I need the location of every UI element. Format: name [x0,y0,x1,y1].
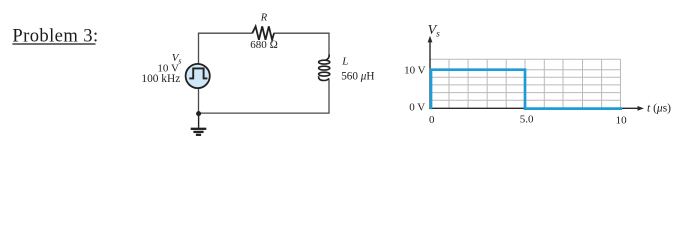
svg-text:100 kHz: 100 kHz [141,73,180,85]
svg-text:0: 0 [429,114,435,126]
graph grid [430,59,621,108]
junction node [196,111,201,116]
inductor L coil [319,55,330,81]
svg-text:t (μs): t (μs) [647,102,671,114]
svg-text:5.0: 5.0 [520,114,534,126]
pulse symbol [189,68,207,78]
svg-text:0 V: 0 V [409,102,425,114]
pulse waveform [431,70,525,110]
svg-text:R: R [260,13,268,24]
svg-text:680 Ω: 680 Ω [250,39,278,51]
y-axis [428,36,433,109]
ground [191,114,207,135]
resistor R [252,26,274,39]
svg-text:10 V: 10 V [404,65,426,77]
svg-text:560 μH: 560 μH [341,70,374,82]
svg-text:Vs: Vs [428,23,441,39]
title Problem 3: [12,26,98,47]
svg-text:10: 10 [616,114,628,126]
wire bottom: junction to right vertical, up to coil bottom [199,79,330,113]
x-axis [429,106,644,111]
wire top: source top to resistor, resistor to right corner, down to coil [199,33,330,63]
svg-text:L: L [341,56,348,68]
wire: source bottom to junction [198,88,200,113]
source VS circle [186,64,210,88]
